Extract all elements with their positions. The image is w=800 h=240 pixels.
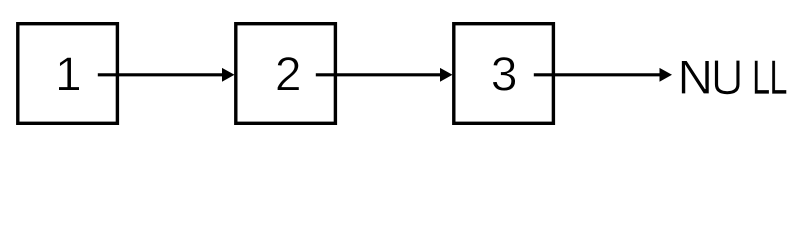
wire arrow from node 1	[98, 73, 223, 76]
value label 3	[493, 57, 516, 91]
node box 3	[454, 24, 554, 124]
arrowhead into node 3	[440, 68, 453, 82]
node box 1	[18, 24, 118, 124]
wire arrow from node 2	[316, 73, 441, 76]
node box 2	[236, 24, 336, 124]
value label 1	[59, 57, 80, 90]
NULL terminator label	[682, 61, 787, 95]
arrowhead to NULL	[660, 68, 673, 82]
value label 2	[277, 57, 299, 91]
wire arrow from node 3	[534, 73, 660, 76]
arrowhead into node 2	[222, 68, 235, 82]
